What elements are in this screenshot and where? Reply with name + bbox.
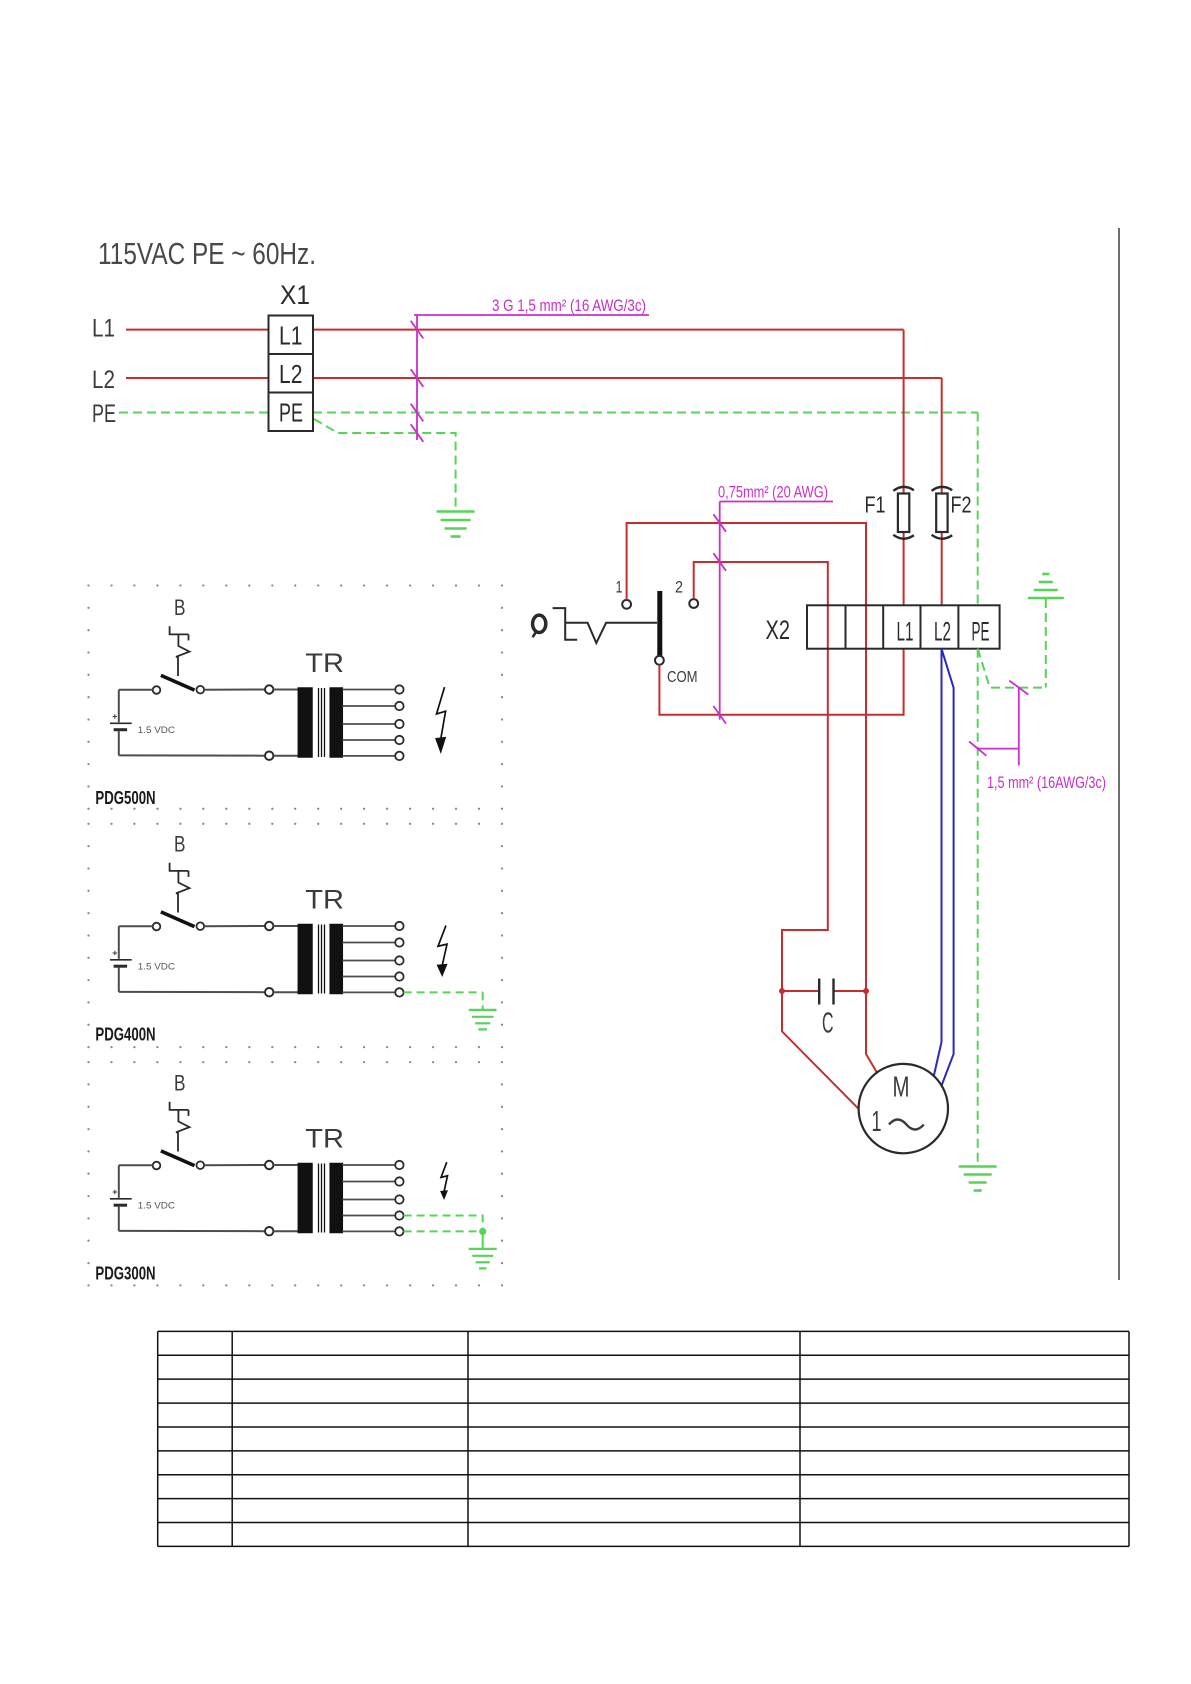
svg-text:1: 1 <box>872 1106 882 1138</box>
svg-text:L1: L1 <box>279 321 303 351</box>
svg-text:PE: PE <box>279 398 303 428</box>
svg-text:PE: PE <box>972 617 990 647</box>
svg-text:B: B <box>174 831 186 856</box>
svg-text:TR: TR <box>305 1123 344 1153</box>
svg-text:B: B <box>174 1070 186 1095</box>
svg-text:L1: L1 <box>92 315 115 343</box>
svg-text:PE: PE <box>92 400 116 428</box>
svg-text:1.5 VDC: 1.5 VDC <box>138 961 175 972</box>
svg-text:L1: L1 <box>897 617 914 647</box>
svg-text:L2: L2 <box>934 617 951 647</box>
svg-text:X1: X1 <box>280 280 310 310</box>
svg-text:PDG400N: PDG400N <box>95 1024 155 1044</box>
svg-text:3 G 1,5 mm² (16 AWG/3c): 3 G 1,5 mm² (16 AWG/3c) <box>492 297 646 315</box>
svg-text:115VAC PE ~ 60Hz.: 115VAC PE ~ 60Hz. <box>98 236 316 271</box>
svg-text:L2: L2 <box>279 359 303 389</box>
svg-text:PDG500N: PDG500N <box>95 788 155 808</box>
svg-text:L2: L2 <box>92 366 115 394</box>
svg-text:PDG300N: PDG300N <box>95 1263 155 1283</box>
svg-text:COM: COM <box>667 669 698 686</box>
svg-text:M: M <box>893 1072 910 1104</box>
svg-text:F1: F1 <box>865 492 886 518</box>
svg-text:B: B <box>174 595 186 620</box>
svg-text:1.5 VDC: 1.5 VDC <box>138 1200 175 1211</box>
svg-text:C: C <box>822 1008 834 1040</box>
svg-text:0,75mm² (20 AWG): 0,75mm² (20 AWG) <box>718 484 828 502</box>
svg-text:1,5 mm² (16AWG/3c): 1,5 mm² (16AWG/3c) <box>987 774 1106 792</box>
svg-text:TR: TR <box>305 648 344 678</box>
svg-text:1.5 VDC: 1.5 VDC <box>138 725 175 736</box>
svg-text:F2: F2 <box>951 492 972 518</box>
svg-text:2: 2 <box>675 579 683 597</box>
svg-text:TR: TR <box>305 884 344 914</box>
svg-text:X2: X2 <box>766 615 791 645</box>
svg-text:1: 1 <box>616 579 623 597</box>
